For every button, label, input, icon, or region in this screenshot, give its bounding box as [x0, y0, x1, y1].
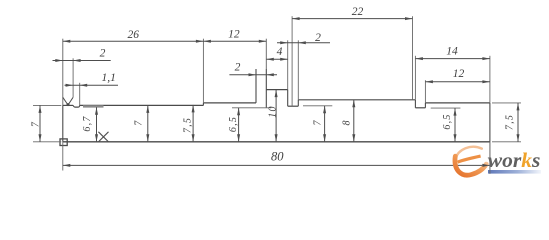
svg-text:6,5: 6,5	[442, 113, 453, 129]
dimension 4 left arrow	[266, 58, 274, 61]
notch bottom 2 wide	[288, 105, 299, 107]
vertical dimension 7.5 left	[183, 105, 195, 142]
svg-text:80: 80	[271, 149, 284, 163]
X mark stroke 2	[98, 132, 108, 142]
vertical dimension 7 middle	[313, 106, 327, 142]
extension line x=489.9 over logo	[489, 142, 491, 174]
dimension 80 left arrow	[63, 164, 71, 167]
X mark stroke 1	[98, 132, 108, 142]
svg-text:14: 14	[446, 46, 458, 58]
e-works logo	[455, 147, 541, 175]
right notch right wall	[424, 103, 426, 108]
extension line x=62.8 below for dim 80	[62, 142, 64, 171]
bottom edge of profile	[63, 141, 490, 143]
dimension 2 left arrow a	[55, 59, 63, 62]
svg-text:2: 2	[315, 32, 321, 44]
svg-text:6,7: 6,7	[82, 115, 93, 131]
svg-text:8: 8	[342, 119, 353, 125]
extension line x=415.4 for dim 14	[414, 56, 416, 100]
extension line left-7 bottom	[33, 141, 61, 143]
svg-text:12: 12	[453, 68, 465, 80]
dimension 2 tab line	[229, 74, 277, 76]
svg-text:22: 22	[352, 6, 364, 18]
notch left wall	[287, 90, 289, 107]
top edge height-7 section left part	[63, 104, 73, 106]
dimension 14 left arrow	[415, 57, 423, 60]
extension line x=292.1 for dim 22 left	[291, 16, 293, 106]
extension line x=266.3 above tab	[265, 39, 267, 69]
dimension 2 left arrow b	[73, 59, 81, 62]
extension line x=298.3 above notch right	[297, 40, 299, 100]
thick surface mark at 6.7 level	[83, 105, 104, 107]
vertical dimension 7.5 right	[505, 103, 520, 142]
dimension 2 left line	[53, 60, 111, 62]
extension line 7 level middle	[303, 105, 332, 107]
dimension 4 line	[266, 58, 287, 60]
dimension 12 right arrow	[259, 40, 267, 43]
extension line x=79.7 for dim 1.1	[79, 83, 81, 106]
dimension 22 line	[292, 18, 412, 20]
dimension 4 right arrow	[280, 58, 288, 61]
svg-text:7: 7	[313, 119, 324, 125]
dimension 12 line	[203, 40, 266, 42]
extension line x=62.8 above profile	[62, 39, 64, 106]
dimension 14 line	[415, 58, 490, 60]
dimension 80 line	[63, 164, 490, 166]
top edge height-7.5 right section	[425, 102, 490, 104]
dimension 26 right arrow	[196, 40, 204, 43]
dimension 1.1 arrow a	[66, 84, 74, 87]
dimension 80 right arrow over logo	[482, 164, 490, 167]
dimension 12 right left arrow	[425, 80, 433, 83]
right notch left wall	[414, 100, 416, 108]
plateau top edge height 10	[266, 89, 287, 91]
dimension 14 right arrow	[482, 57, 490, 60]
dimension 1.1 arrow b	[80, 84, 88, 87]
dimension 12 right right arrow	[482, 80, 490, 83]
top edge height-7.5 section	[203, 102, 256, 104]
vertical dimension 6.5 left	[228, 108, 240, 142]
dimension 1.1 line	[65, 84, 119, 86]
extension line right-7.5 top	[492, 102, 521, 104]
dimension 26 line	[63, 40, 204, 42]
extension line 6.5 level right	[431, 107, 461, 109]
extension line x=73.1 for dims 2 and 1.1	[72, 58, 74, 97]
dimension 12 right line	[425, 81, 490, 83]
extension line x=489.9 above right edge	[489, 56, 491, 103]
extension line x=287.7 above notch	[287, 40, 289, 89]
svg-text:12: 12	[228, 29, 240, 41]
dimension 2 tab arrow b	[266, 73, 274, 76]
vertical dimension 6.5 right	[442, 108, 457, 142]
svg-text:7: 7	[31, 121, 42, 127]
extension line x=425.4 for dim 12 right	[424, 80, 426, 103]
svg-text:1,1: 1,1	[102, 72, 116, 84]
right notch bottom	[415, 107, 425, 109]
dimension 2 notch arrow b	[298, 41, 306, 44]
extension line 6.5 level left	[232, 107, 271, 109]
dimension 2 notch line	[277, 42, 330, 44]
groove 1.1 wide depth 0.3	[73, 105, 80, 107]
notch right wall	[297, 100, 299, 106]
right edge of profile	[489, 103, 491, 142]
V mark right arm	[68, 97, 73, 105]
extension line x=412.5 for dim 22 right	[412, 16, 414, 100]
svg-text:7: 7	[134, 119, 145, 125]
vertical dimension 7 far left	[31, 105, 42, 141]
svg-text:4: 4	[277, 46, 283, 58]
svg-text:26: 26	[128, 29, 140, 41]
dimension 80 right arrow	[482, 164, 490, 167]
svg-text:2: 2	[100, 47, 106, 59]
extension line right-7.5 bottom	[492, 141, 521, 143]
tab left wall	[255, 69, 257, 103]
tab right wall	[265, 69, 267, 108]
svg-text:2: 2	[235, 61, 241, 73]
svg-text:10: 10	[268, 105, 279, 117]
svg-text:7,5: 7,5	[183, 117, 194, 133]
svg-text:7,5: 7,5	[505, 114, 516, 130]
datum square at bottom-left corner	[60, 139, 67, 146]
step up 7 to 7.5 at x=203	[202, 103, 204, 106]
V mark apex dot	[67, 103, 70, 106]
svg-text:works: works	[488, 148, 541, 172]
extension line x=203.4 step	[202, 39, 204, 103]
top edge height-8 section	[298, 99, 415, 101]
svg-text:6,5: 6,5	[228, 116, 239, 132]
dimension 22 right arrow	[405, 17, 413, 20]
top edge height-7 section right part	[80, 104, 204, 106]
vertical dimension 6.7	[82, 107, 98, 142]
dimension 2 tab arrow a	[249, 73, 257, 76]
vertical dimension 7 mid-left	[134, 105, 150, 141]
dimension 26 left arrow	[63, 40, 71, 43]
dimension 2 notch arrow a	[280, 41, 288, 44]
V mark left arm	[63, 97, 68, 105]
extension line left-7 top	[33, 104, 61, 106]
vertical dimension 10	[268, 90, 279, 142]
left edge of profile	[62, 105, 64, 141]
dimension 22 left arrow	[292, 17, 300, 20]
dimension 12 left arrow	[203, 40, 211, 43]
vertical dimension 8	[342, 100, 356, 142]
extension line x=489.9 below for dim 80	[489, 142, 491, 174]
